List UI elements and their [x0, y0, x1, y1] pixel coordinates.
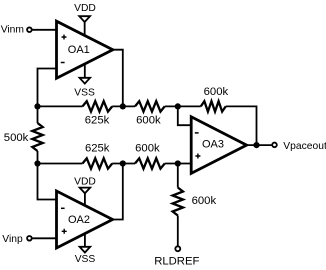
- terminal RLDREF: [175, 246, 180, 251]
- VSS stem OA2: [84, 234, 86, 247]
- VDD symbol OA2: [80, 188, 91, 194]
- wire bottom row segment 2: [112, 163, 135, 165]
- svg-text:Vinm: Vinm: [1, 24, 24, 35]
- wire top row segment 2: [112, 105, 135, 107]
- VDD stem OA1: [84, 22, 86, 36]
- wire Vinp to OA2 + input: [32, 237, 56, 239]
- svg-text:500k: 500k: [4, 132, 29, 144]
- wire OA1 feedback: - input to left rail down to node: [38, 69, 57, 107]
- terminal Vinm: [27, 27, 32, 32]
- junction node bottom row left: [34, 160, 40, 166]
- wire OA3 output: [247, 144, 272, 146]
- wire Vinm to OA1 + input: [32, 29, 57, 31]
- op-amp OA2: [57, 191, 113, 248]
- junction node top row mid (OA1 out): [120, 103, 126, 109]
- OA3 minus sign: [195, 132, 199, 134]
- svg-text:OA1: OA1: [68, 44, 90, 56]
- junction node bottom row right (OA3 + input): [175, 160, 181, 166]
- svg-text:600k: 600k: [135, 142, 160, 154]
- svg-text:600k: 600k: [204, 86, 229, 98]
- OA1 plus sign: [62, 35, 67, 40]
- wire 600k to RLDREF terminal: [177, 216, 179, 246]
- svg-text:600k: 600k: [192, 195, 217, 207]
- resistor 600k (to RLDREF): [173, 188, 183, 216]
- wire top row segment 4 and down to output node: [226, 106, 257, 145]
- wire top row segment 3: [165, 105, 201, 107]
- svg-text:Vinp: Vinp: [2, 234, 23, 245]
- op-amp OA3: [191, 117, 246, 174]
- wire left rail lower: [37, 151, 39, 164]
- svg-text:OA3: OA3: [202, 139, 224, 151]
- wire OA3 - input branch: [178, 106, 191, 125]
- terminal Vinp: [27, 236, 32, 241]
- svg-text:VDD: VDD: [74, 176, 96, 187]
- svg-text:Vpaceout: Vpaceout: [283, 141, 326, 152]
- svg-text:VDD: VDD: [74, 3, 96, 14]
- wire bottom row segment 1: [38, 163, 83, 165]
- OA2 minus sign: [61, 207, 65, 209]
- wire from + node down to 600k: [177, 164, 179, 188]
- resistor 625k (top): [83, 101, 113, 111]
- svg-text:600k: 600k: [136, 115, 161, 127]
- wire OA2 output right and up to bottom row: [113, 164, 123, 220]
- svg-text:OA2: OA2: [68, 214, 90, 226]
- resistor 625k (bottom): [83, 158, 113, 168]
- VSS stem OA1: [84, 64, 86, 78]
- OA2 plus sign: [62, 229, 67, 234]
- wire OA1 output right and down to top row: [113, 50, 123, 107]
- VDD symbol OA1: [79, 16, 90, 22]
- wire left rail between nodes: [37, 106, 39, 123]
- VSS symbol OA2: [80, 247, 91, 253]
- OA3 plus sign: [195, 154, 200, 159]
- terminal Vpaceout: [272, 143, 277, 148]
- svg-text:VSS: VSS: [75, 254, 96, 265]
- resistor 500k (left rail): [32, 123, 42, 151]
- resistor 600k (feedback OA3): [201, 101, 226, 111]
- VSS symbol OA1: [80, 78, 91, 84]
- VDD stem OA2: [84, 193, 86, 206]
- resistor 600k (top middle): [135, 101, 165, 111]
- resistor 600k (bottom): [135, 158, 165, 168]
- OA1 minus sign: [61, 62, 65, 64]
- wire OA2 feedback: left rail down and right to - input: [38, 164, 57, 200]
- wire bottom row segment 3 to OA3 + input: [165, 163, 192, 165]
- junction node top row left: [34, 103, 40, 109]
- junction node bottom row mid (OA2 out): [120, 160, 126, 166]
- wire top row segment 1: [38, 105, 83, 107]
- svg-text:625k: 625k: [85, 142, 110, 154]
- svg-text:RLDREF: RLDREF: [154, 255, 199, 267]
- junction node top row right (OA3 - input): [175, 103, 181, 109]
- svg-text:625k: 625k: [85, 115, 110, 127]
- junction node output: [253, 142, 259, 148]
- op-amp OA1: [57, 21, 113, 78]
- svg-text:VSS: VSS: [74, 88, 95, 99]
